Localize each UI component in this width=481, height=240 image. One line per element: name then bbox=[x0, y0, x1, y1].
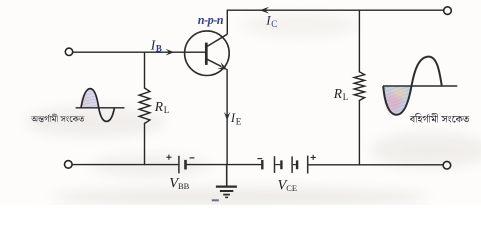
paper smudge background bbox=[25, 13, 481, 206]
wire top rail bbox=[227, 9, 443, 11]
svg-text:BB: BB bbox=[178, 181, 190, 191]
resistor RL left bbox=[139, 88, 150, 124]
terminal input top-left bbox=[65, 48, 72, 55]
wire left branch upper bbox=[144, 52, 146, 88]
input waveform bbox=[76, 89, 125, 122]
terminal output bottom-right bbox=[443, 161, 451, 169]
svg-text:CE: CE bbox=[286, 183, 297, 193]
transistor Q1 n-p-n bbox=[185, 31, 230, 76]
wire bottom rail right bbox=[308, 164, 443, 166]
plus sign VCE bbox=[311, 155, 316, 160]
arrow IE bbox=[224, 112, 230, 121]
terminal input bottom-left bbox=[65, 161, 73, 169]
svg-text:L: L bbox=[164, 105, 170, 115]
wire base lead bbox=[73, 51, 206, 53]
svg-text:R: R bbox=[333, 86, 343, 101]
transistor emitter arrowhead bbox=[217, 62, 227, 70]
ground bbox=[216, 165, 237, 198]
wire bottom rail left bbox=[72, 164, 178, 166]
battery VCE (three cells) bbox=[262, 156, 307, 174]
svg-text:R: R bbox=[154, 99, 164, 114]
minus sign VBB bbox=[190, 157, 195, 159]
wire bottom rail middle bbox=[186, 164, 262, 166]
caption output (Bengali: bohirgami songket) bbox=[410, 113, 470, 123]
plus sign VBB bbox=[166, 155, 171, 160]
terminal output top-right bbox=[444, 7, 452, 15]
minus sign VCE bbox=[257, 158, 262, 160]
svg-text:L: L bbox=[343, 92, 349, 102]
wire emitter vertical bbox=[226, 70, 228, 165]
wire left branch lower bbox=[144, 124, 146, 165]
output waveform bbox=[383, 57, 457, 115]
battery VBB bbox=[179, 156, 186, 174]
svg-text:B: B bbox=[156, 44, 162, 54]
resistor RL right bbox=[354, 72, 364, 101]
svg-text:n-p-n: n-p-n bbox=[198, 13, 224, 27]
arrow IB bbox=[166, 49, 175, 56]
stray ink mark bbox=[212, 199, 219, 201]
caption input (Bengali: ontorgami songket) bbox=[31, 114, 85, 122]
wire right branch upper bbox=[358, 10, 360, 72]
wire right branch lower bbox=[358, 101, 360, 165]
svg-text:E: E bbox=[236, 117, 242, 127]
svg-text:C: C bbox=[271, 19, 277, 29]
wire collector vertical bbox=[226, 10, 228, 34]
arrow IC bbox=[260, 7, 270, 14]
